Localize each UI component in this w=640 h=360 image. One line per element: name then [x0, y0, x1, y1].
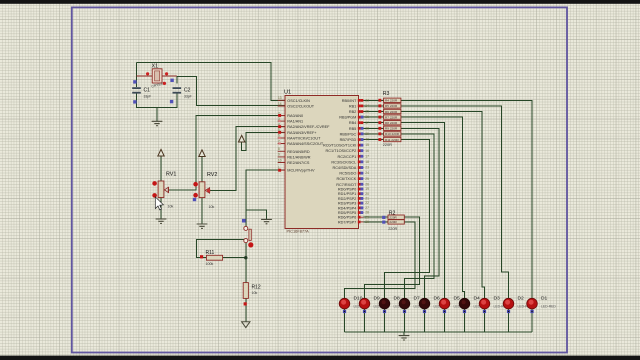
wire R11 right lead: [223, 257, 246, 259]
svg-text:23: 23: [365, 166, 369, 170]
svg-text:9: 9: [278, 153, 280, 157]
svg-text:RE2/AN7/CS: RE2/AN7/CS: [287, 161, 310, 165]
wire MCLR column: [246, 170, 285, 226]
ground near button: [261, 219, 272, 223]
wire crystal bottom loop: [137, 94, 177, 108]
wire RB2 to R3: [364, 111, 384, 113]
svg-text:R6 220R: R6 220R: [385, 110, 398, 114]
junction R11 R12: [244, 256, 247, 259]
svg-text:RD3/PSP3: RD3/PSP3: [338, 202, 356, 206]
svg-text:R11: R11: [206, 250, 215, 256]
svg-text:10k: 10k: [209, 205, 215, 209]
svg-text:38: 38: [365, 126, 369, 130]
LED D4: [459, 296, 489, 314]
svg-text:220R: 220R: [383, 143, 392, 147]
svg-text:R10 220R: R10 220R: [385, 132, 400, 136]
svg-text:RC2/CCP1: RC2/CCP1: [338, 155, 357, 159]
svg-text:17: 17: [365, 154, 369, 158]
svg-text:RC5/SDO: RC5/SDO: [339, 172, 356, 176]
svg-text:24: 24: [365, 171, 369, 175]
LED D6: [419, 296, 449, 314]
svg-text:RC4/SDI/SDA: RC4/SDI/SDA: [332, 166, 356, 170]
svg-text:RA1/AN1: RA1/AN1: [287, 120, 303, 124]
LED D8: [379, 296, 409, 314]
wire RB1 to R3: [364, 105, 384, 107]
wire R11 left loop: [196, 239, 244, 257]
svg-text:RC0/T1OSO/T1CKI: RC0/T1OSO/T1CKI: [323, 144, 356, 148]
svg-text:27: 27: [365, 206, 369, 210]
svg-text:RE1/AN6/WR: RE1/AN6/WR: [287, 155, 310, 159]
svg-text:RD6/PSP6: RD6/PSP6: [338, 216, 356, 220]
svg-text:OSC1/CLKIN: OSC1/CLKIN: [287, 99, 310, 103]
wire OSC1 net: [137, 62, 286, 100]
power arrow RV2: [199, 150, 205, 157]
svg-text:R9 220R: R9 220R: [385, 127, 398, 131]
wire crystal left branch: [136, 62, 138, 87]
svg-text:X1: X1: [152, 64, 159, 70]
wire RB3 to R3: [364, 116, 384, 118]
svg-text:D7: D7: [414, 296, 421, 302]
LED D1: [527, 296, 557, 314]
svg-text:R8 220R: R8 220R: [385, 121, 398, 125]
svg-text:OSC2/CLKOUT: OSC2/CLKOUT: [287, 105, 314, 109]
wire RD7 to R2: [364, 221, 389, 223]
svg-text:MCLR/Vpp/THV: MCLR/Vpp/THV: [287, 169, 315, 173]
svg-text:RC1/T1OSI/CCP2: RC1/T1OSI/CCP2: [325, 149, 356, 153]
svg-text:RB6/PGC: RB6/PGC: [340, 132, 357, 136]
svg-text:RV2: RV2: [207, 172, 217, 178]
LED D3: [479, 296, 509, 314]
svg-text:RB0/INT: RB0/INT: [342, 99, 357, 103]
svg-text:15: 15: [365, 143, 369, 147]
svg-text:RB5: RB5: [349, 127, 356, 131]
power arrow RA3 net: [239, 135, 245, 142]
svg-text:33: 33: [365, 98, 369, 102]
wire R3 out1 to D1: [401, 100, 532, 298]
wire RV2 ground lead: [201, 197, 203, 223]
svg-text:RD1/PSP1: RD1/PSP1: [338, 192, 356, 196]
svg-text:RA3/AN3/VREF+: RA3/AN3/VREF+: [287, 131, 317, 135]
wire RB0 to R3: [364, 99, 384, 101]
wire button to junction: [245, 243, 247, 258]
ground RV1: [156, 219, 167, 223]
svg-text:20: 20: [365, 192, 369, 196]
svg-text:RD4/PSP4: RD4/PSP4: [338, 206, 356, 210]
crystal X1: [137, 64, 177, 89]
svg-text:30: 30: [365, 220, 369, 224]
svg-text:RB1: RB1: [349, 104, 356, 108]
wire MCLR ground tee: [246, 210, 267, 219]
svg-text:R11 220R: R11 220R: [385, 138, 399, 142]
node marker blue near C2 top: [170, 79, 173, 82]
svg-text:220R: 220R: [388, 227, 397, 231]
node marker blue near C1 top: [133, 80, 136, 83]
wire RB7 to R3: [364, 139, 384, 141]
wire LED cathode leads: [345, 309, 533, 332]
mouse cursor: [155, 197, 163, 210]
svg-text:R7 220R: R7 220R: [385, 115, 398, 119]
wire RB4 to R3: [364, 122, 384, 124]
svg-text:D4: D4: [474, 296, 481, 302]
svg-text:220R: 220R: [389, 220, 397, 224]
ground arrow under R12: [242, 322, 250, 328]
svg-text:22: 22: [365, 201, 369, 205]
svg-text:RA5/AN4/SS/C2OUT: RA5/AN4/SS/C2OUT: [287, 142, 324, 146]
svg-text:R5 220R: R5 220R: [385, 104, 398, 108]
svg-text:PIC16F877A: PIC16F877A: [287, 229, 310, 234]
wire RB5 to R3: [364, 127, 384, 129]
svg-text:RV1: RV1: [166, 172, 176, 178]
svg-text:10k: 10k: [168, 205, 174, 209]
svg-text:U1: U1: [284, 90, 291, 96]
wire R2 out1 to D9: [365, 217, 420, 298]
capacitor C2: [173, 87, 192, 98]
node marker blue MCLR column: [242, 219, 246, 223]
wire RV1 power stem: [160, 156, 162, 181]
wire power arrow to RA3: [242, 132, 285, 150]
svg-text:RE0/AN5/RD: RE0/AN5/RD: [287, 150, 310, 154]
svg-text:RB7/PGD: RB7/PGD: [340, 138, 357, 142]
wire crystal ground stem: [156, 107, 158, 121]
svg-text:18: 18: [365, 160, 369, 164]
LED D2: [503, 296, 533, 314]
svg-text:37: 37: [365, 121, 369, 125]
wire R3 out3 to D3: [401, 112, 485, 299]
svg-text:26: 26: [365, 182, 369, 186]
svg-text:RC3/SCK/SCL: RC3/SCK/SCL: [331, 160, 356, 164]
svg-text:RA0/AN0: RA0/AN0: [287, 114, 303, 118]
wire junction to R12: [245, 258, 247, 283]
svg-text:R4 220R: R4 220R: [385, 99, 398, 103]
svg-text:D2: D2: [518, 296, 525, 302]
svg-text:33pF: 33pF: [144, 95, 152, 99]
svg-text:C1: C1: [144, 88, 151, 94]
wire R3 out5 to D5: [401, 123, 445, 299]
wire R3 out2 to D2: [401, 106, 509, 299]
node marker red C2 top: [163, 82, 166, 85]
svg-text:8: 8: [278, 147, 280, 151]
wire RV2 power stem: [201, 156, 203, 182]
svg-text:100k: 100k: [206, 262, 214, 266]
svg-text:RB4: RB4: [349, 121, 356, 125]
svg-text:LED-RED: LED-RED: [541, 305, 556, 309]
svg-text:D5: D5: [454, 296, 461, 302]
LED D7: [399, 296, 429, 314]
svg-text:RB2: RB2: [349, 110, 356, 114]
potentiometer RV2: [193, 172, 218, 209]
potentiometer RV1: [152, 172, 176, 209]
capacitor C1: [132, 87, 151, 98]
svg-text:RB3/PGM: RB3/PGM: [339, 116, 356, 120]
svg-text:21: 21: [365, 197, 369, 201]
power arrow RV1: [158, 149, 164, 156]
resistor pack R3 (8x 220R): [378, 91, 401, 147]
svg-text:C2: C2: [184, 88, 191, 94]
wire R2 out2 to D10: [345, 222, 415, 299]
svg-text:40: 40: [365, 138, 369, 142]
op-amp U1 PIC16F877A microcontroller: [278, 90, 369, 234]
wire R12 to ground: [245, 298, 247, 321]
wire R3 out7 to D7: [401, 134, 434, 299]
node marker red crystal left: [146, 72, 149, 75]
svg-text:10k: 10k: [252, 291, 258, 295]
node marker red crystal right: [165, 72, 168, 75]
svg-text:D6: D6: [434, 296, 441, 302]
svg-text:13: 13: [278, 96, 282, 100]
svg-text:35: 35: [365, 110, 369, 114]
node marker blue near C1 bottom: [133, 100, 136, 103]
wire RV1 ground lead: [160, 198, 162, 219]
svg-text:29: 29: [365, 215, 369, 219]
svg-text:RD0/PSP0: RD0/PSP0: [338, 188, 356, 192]
wire RB6 to R3: [364, 133, 384, 135]
wire R3 out6 to D6: [401, 128, 439, 298]
wire rail ground stem: [403, 332, 405, 335]
svg-text:RD5/PSP5: RD5/PSP5: [338, 211, 356, 215]
node marker blue near C2 bottom: [170, 100, 173, 103]
svg-text:RD2/PSP2: RD2/PSP2: [338, 197, 356, 201]
svg-text:RC7/RX/DT: RC7/RX/DT: [336, 183, 357, 187]
ground LED rail: [399, 336, 410, 340]
svg-text:220R: 220R: [389, 216, 397, 220]
wire RV1 wiper to RA0: [168, 116, 285, 191]
svg-text:10: 10: [278, 158, 282, 162]
wire R3 out8 to D8: [385, 140, 430, 299]
svg-text:D9: D9: [374, 296, 381, 302]
LED D9: [359, 296, 389, 314]
wire LED ground rail: [345, 331, 533, 333]
resistor pack R2 (2x 220R): [382, 210, 404, 230]
svg-text:39: 39: [365, 132, 369, 136]
ground crystal: [152, 121, 163, 125]
svg-text:RA2/AN2/VREF-/CVREF: RA2/AN2/VREF-/CVREF: [287, 125, 330, 129]
LED D5: [439, 296, 469, 314]
svg-text:D1: D1: [541, 296, 548, 302]
svg-text:19: 19: [365, 187, 369, 191]
svg-text:RC6/TX/CK: RC6/TX/CK: [336, 177, 356, 181]
wire R3 out4 to D4: [401, 117, 465, 298]
svg-text:R12: R12: [252, 285, 261, 291]
wire OSC2 net: [177, 76, 285, 105]
svg-text:R3: R3: [383, 91, 390, 97]
svg-text:36: 36: [365, 115, 369, 119]
svg-text:28: 28: [365, 211, 369, 215]
wire RD6 to R2: [364, 216, 389, 218]
ground RV2: [197, 224, 208, 228]
resistor R12: [243, 283, 261, 306]
svg-text:D8: D8: [394, 296, 401, 302]
svg-text:D3: D3: [494, 296, 501, 302]
svg-text:33pF: 33pF: [184, 95, 192, 99]
button (reset): [244, 226, 254, 247]
svg-text:16: 16: [365, 149, 369, 153]
wire RV2 wiper to RA2: [209, 127, 285, 191]
svg-text:RA4/T0CKI/C1OUT: RA4/T0CKI/C1OUT: [287, 136, 321, 140]
svg-text:34: 34: [365, 104, 369, 108]
resistor R11: [200, 250, 223, 266]
svg-text:14: 14: [278, 102, 282, 106]
svg-text:RD7/PSP7: RD7/PSP7: [338, 220, 356, 224]
LED D10: [339, 296, 369, 314]
svg-text:25: 25: [365, 177, 369, 181]
